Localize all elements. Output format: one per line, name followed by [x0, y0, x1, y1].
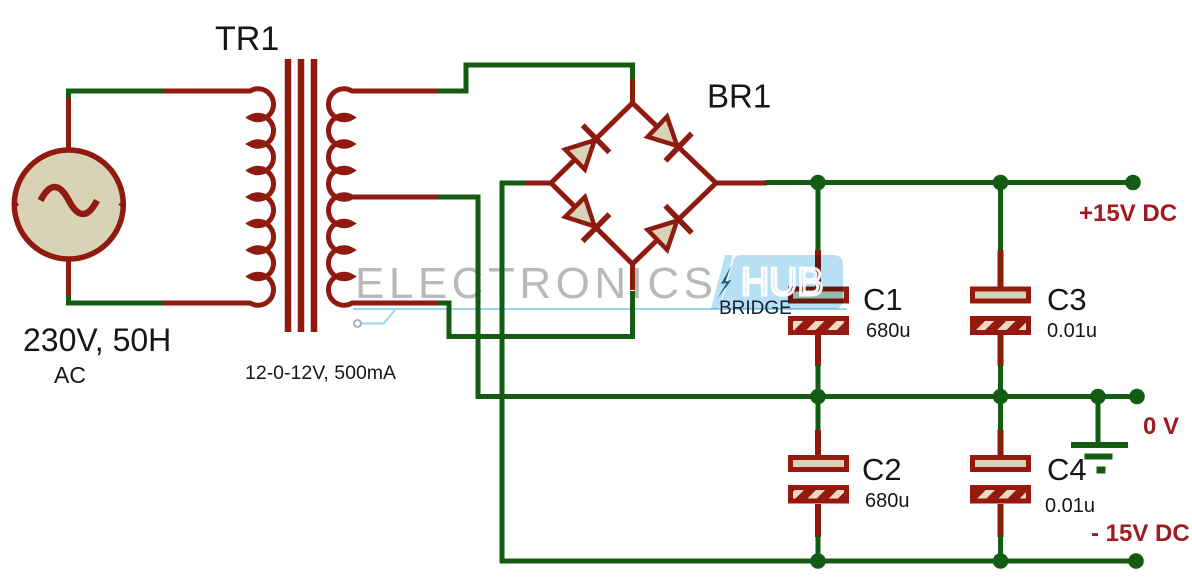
svg-text:C4: C4 [1047, 452, 1087, 487]
svg-text:+15V DC: +15V DC [1079, 200, 1177, 227]
svg-text:12-0-12V, 500mA: 12-0-12V, 500mA [245, 362, 396, 384]
svg-text:C3: C3 [1047, 282, 1087, 317]
svg-text:BRIDGE: BRIDGE [719, 298, 792, 319]
transformer TR1 primary winding [163, 89, 274, 305]
diode D2 (top-right arm) [644, 113, 692, 161]
capacitor C1 leads [816, 183, 821, 251]
watermark HUB box [711, 255, 843, 309]
AC source V1 [14, 150, 125, 259]
transformer TR1 core [288, 59, 314, 332]
capacitor C2 [791, 458, 847, 502]
wire: bridge left to -15V rail [502, 183, 1136, 561]
wire: bridge left lead [524, 181, 551, 186]
svg-text:BR1: BR1 [707, 78, 771, 115]
svg-text:0.01u: 0.01u [1045, 495, 1095, 517]
junction dots [810, 175, 1145, 569]
wire: bridge right lead [716, 181, 767, 186]
diode D3 (left-bottom arm) [562, 193, 610, 241]
capacitor C3 leads [998, 183, 1003, 251]
capacitor C2 leads [816, 397, 821, 432]
watermark bolt [717, 266, 732, 299]
wire: AC top corner to transformer [69, 91, 165, 98]
svg-text:C1: C1 [863, 282, 903, 317]
svg-text:680u: 680u [865, 490, 910, 512]
wire: bridge bottom lead [630, 263, 635, 290]
wire: secondary bottom to bridge bottom [437, 291, 633, 337]
ground [1071, 396, 1128, 474]
wire: AC bottom lead [66, 257, 71, 298]
transformer TR1 center tap lead [352, 195, 437, 200]
svg-text:AC: AC [54, 362, 86, 388]
wire: AC top lead [66, 94, 71, 152]
svg-text:TR1: TR1 [215, 20, 279, 58]
bridge rectifier BR1 diamond [551, 103, 716, 264]
svg-text:230V, 50H: 230V, 50H [23, 322, 171, 358]
svg-text:0 V: 0 V [1143, 413, 1179, 440]
svg-text:- 15V DC: - 15V DC [1091, 520, 1190, 547]
capacitor C1 [791, 289, 847, 333]
capacitor C4 [973, 458, 1029, 502]
capacitor C3 [973, 289, 1029, 333]
wire: secondary top to bridge top [437, 65, 633, 91]
wire: AC bottom corner to transformer [69, 296, 167, 303]
wire: bridge top lead [630, 79, 635, 104]
svg-text:680u: 680u [866, 320, 911, 342]
diode D4 (bottom-right arm) [644, 206, 692, 254]
svg-text:0.01u: 0.01u [1047, 320, 1097, 342]
svg-text:C2: C2 [862, 452, 902, 487]
transformer TR1 secondary winding [328, 89, 437, 305]
net wire BRIDGE (thin blue) [353, 309, 847, 327]
wire: +15V rail [765, 180, 1133, 185]
diode D1 (left-top arm) [562, 125, 610, 173]
wire: center tap to 0V rail [437, 197, 1137, 397]
capacitor C4 leads [998, 397, 1003, 432]
